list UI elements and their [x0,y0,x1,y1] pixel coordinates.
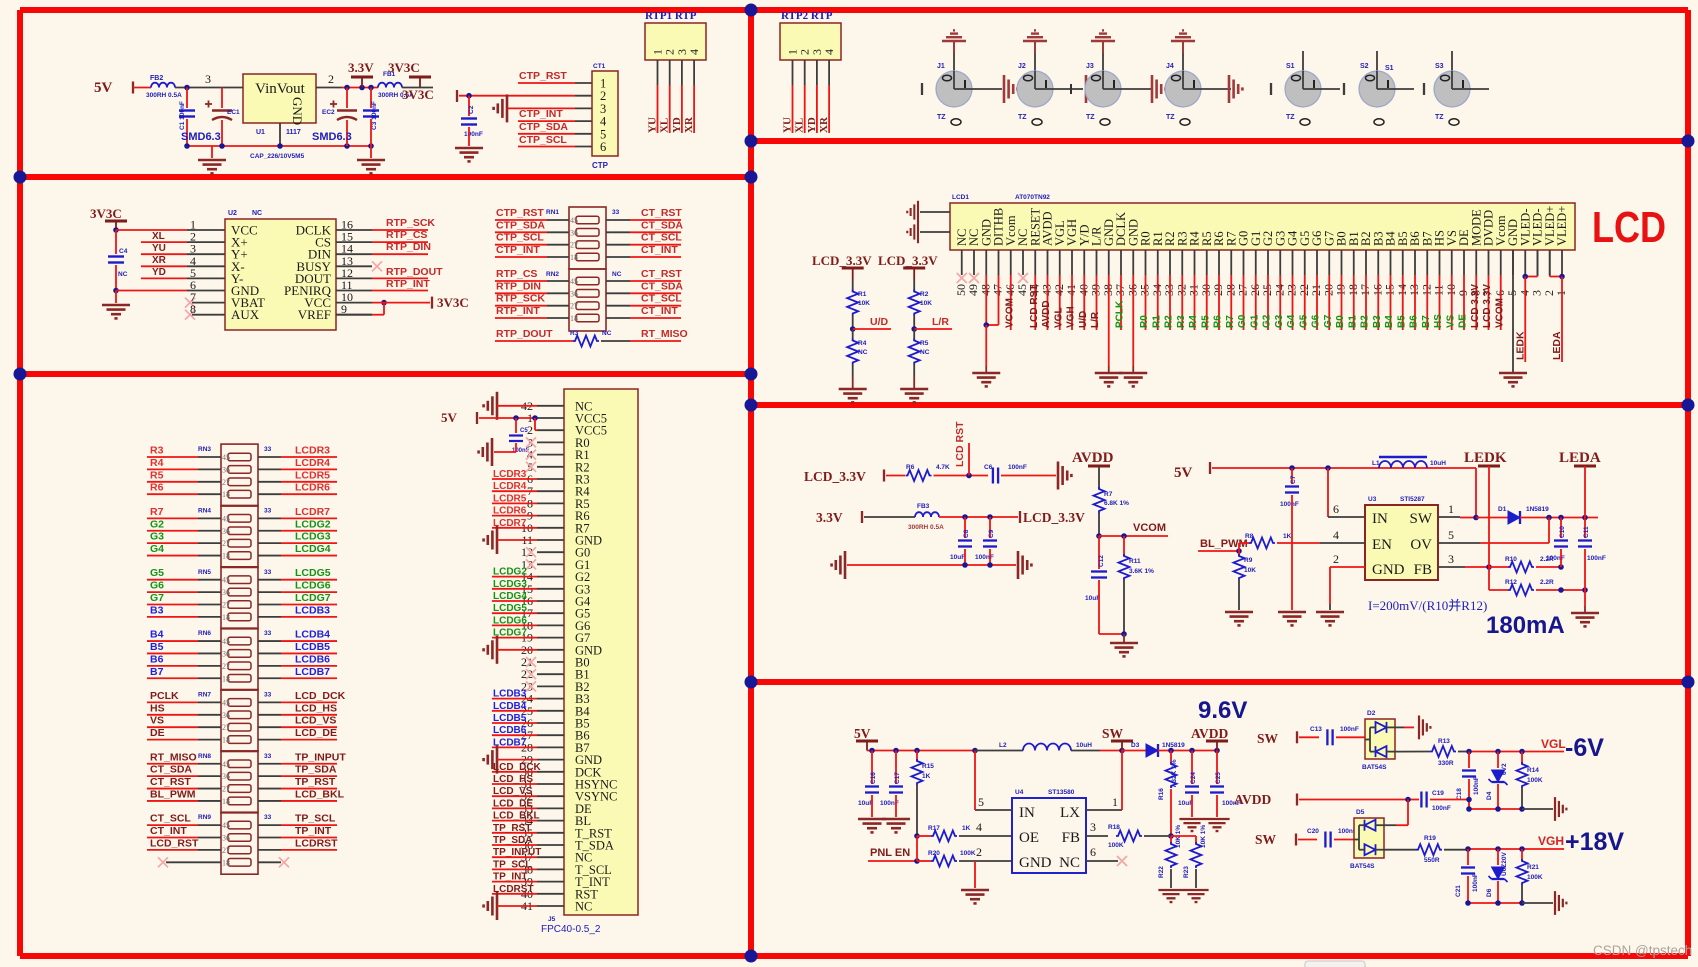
ground [479,438,492,466]
svg-text:C2: C2 [468,105,475,114]
svg-text:LX: LX [1060,805,1080,821]
svg-text:1: 1 [1112,795,1118,809]
svg-text:20: 20 [1321,284,1335,296]
svg-text:LCDR6: LCDR6 [295,482,330,494]
capacitor C1 [186,88,188,109]
svg-text:50: 50 [954,284,968,296]
svg-text:LCD_BKL: LCD_BKL [493,811,540,822]
resistor R23 [1171,835,1196,837]
svg-text:AVDD: AVDD [1041,300,1052,328]
pin 1 LX wire [1086,809,1122,811]
svg-text:G6: G6 [150,580,164,592]
svg-text:CTP: CTP [592,161,609,170]
svg-text:5V: 5V [94,80,113,96]
svg-text:36: 36 [222,527,230,536]
svg-text:LCDR7: LCDR7 [295,506,330,518]
svg-text:D3: D3 [1131,742,1140,749]
capacitor C21 [1467,849,1469,865]
svg-text:XR: XR [152,255,167,266]
jumper J1 [936,71,972,107]
electrolytic capacitor EC1 [221,88,223,109]
resistor R8 [1236,548,1242,554]
net label LCD_DE [492,807,537,809]
svg-text:R19: R19 [1424,835,1436,842]
net label LCDRST [258,849,281,851]
svg-text:100nF: 100nF [1280,501,1299,508]
svg-text:GND: GND [1372,562,1405,578]
svg-text:33: 33 [264,753,272,760]
svg-text:10uF: 10uF [858,800,873,807]
svg-text:CT_INT: CT_INT [150,825,187,837]
svg-text:18: 18 [222,613,230,622]
side ground right of J1 [1004,75,1017,103]
svg-text:S2: S2 [1360,63,1369,70]
svg-text:33: 33 [264,814,272,821]
svg-text:LCD_HS: LCD_HS [493,774,533,785]
svg-text:3V3C: 3V3C [402,87,434,102]
resistor R13 [1395,751,1430,753]
svg-text:YD: YD [671,117,683,133]
resistor R12 [1508,585,1534,596]
svg-text:SW: SW [1257,731,1279,746]
svg-text:CSDN @tpstech: CSDN @tpstech [1593,943,1692,958]
svg-text:6: 6 [1493,290,1507,296]
svg-text:2.2R: 2.2R [1540,579,1554,586]
svg-text:10uF: 10uF [950,554,965,561]
svg-text:LCDG7: LCDG7 [295,592,331,604]
svg-text:2: 2 [1333,552,1339,566]
GND pins 48 47 to ground [985,275,987,325]
ground [1204,819,1229,831]
net label LCDB7 [492,746,537,748]
svg-text:IN: IN [1372,511,1388,527]
ground [1555,797,1566,821]
wire to pin6 [116,290,187,292]
svg-text:U2: U2 [228,210,237,217]
ground [370,146,372,158]
svg-text:NC: NC [118,271,128,278]
svg-text:LCD1: LCD1 [952,194,969,201]
pin 5 OV wire [1438,542,1480,544]
resistor R22 [1170,836,1172,843]
svg-text:YU: YU [782,117,794,133]
svg-text:33: 33 [264,446,272,453]
svg-text:EC1: EC1 [227,109,240,116]
net label LCD_VS [492,795,537,797]
svg-text:5: 5 [1448,528,1454,542]
svg-text:12: 12 [1419,284,1433,296]
svg-text:B3: B3 [150,604,164,616]
svg-text:BL_PWM: BL_PWM [1200,538,1248,550]
svg-text:RTP_DIN: RTP_DIN [496,280,541,292]
pin 10 to 3V3C [381,300,387,306]
no-connect pin 45 [1018,273,1028,283]
ferrite bead FB3 [915,512,939,517]
svg-text:LCD_DCK: LCD_DCK [493,762,542,773]
svg-text:LCD_3.3V: LCD_3.3V [812,253,872,268]
svg-text:IN: IN [1019,805,1035,821]
LCD1 left side pins to grounds [920,211,950,213]
svg-text:STI5287: STI5287 [1400,496,1425,503]
net label LCD RST pin 44 [1034,275,1036,330]
svg-text:R10: R10 [1505,556,1517,563]
port [1209,462,1211,474]
svg-text:10uF: 10uF [1178,800,1193,807]
svg-text:VGL: VGL [1053,307,1064,328]
svg-text:10K: 10K [920,300,932,307]
svg-text:AVDD: AVDD [1234,792,1272,807]
svg-text:22: 22 [1297,284,1311,296]
net label G1 pin 26 [1255,275,1257,330]
svg-text:G2: G2 [150,518,164,530]
port [1270,83,1272,95]
svg-text:45: 45 [570,216,578,225]
svg-text:R17: R17 [928,825,940,832]
resistor R21 [1521,849,1523,861]
net label LCD 3.3V pin 8 [1475,275,1477,330]
svg-text:R2: R2 [1164,315,1175,328]
svg-text:36: 36 [222,588,230,597]
no-connect pin 4 [526,450,536,460]
svg-text:LCDG3: LCDG3 [295,531,331,543]
resistor R16 [1170,751,1172,764]
svg-text:TZ: TZ [1086,114,1095,121]
svg-text:36: 36 [222,834,230,843]
svg-text:R5: R5 [920,340,929,347]
svg-text:U4: U4 [1015,789,1024,796]
no-connect pin 13 [526,559,536,569]
svg-text:LCDR5: LCDR5 [493,493,527,504]
svg-text:45: 45 [222,760,230,769]
svg-text:100K: 100K [1527,777,1543,784]
svg-text:TZ: TZ [1435,114,1444,121]
svg-text:100nF: 100nF [1473,776,1480,795]
svg-text:LCDG3: LCDG3 [493,579,527,590]
net label VGL pin 42 [1059,275,1061,330]
resistor network RN3 [221,444,258,506]
svg-text:6V2: 6V2 [1501,763,1508,775]
GND pin 38 to ground [1108,275,1110,366]
net label LCDB3 [258,616,281,618]
svg-text:4: 4 [687,49,701,55]
ground rail with side grounds [847,564,1016,566]
svg-text:L/R: L/R [1090,311,1101,328]
net label LCDR4 [492,490,537,492]
net label R2 pin 33 [1169,275,1171,330]
svg-text:CT_RST: CT_RST [641,268,682,280]
svg-text:37: 37 [1113,284,1127,296]
svg-text:7.32K 1%: 7.32K 1% [1171,759,1178,788]
svg-text:RN6: RN6 [198,630,211,637]
net label B3 pin 16 [1377,275,1379,330]
svg-text:RTP_SCK: RTP_SCK [496,293,545,305]
svg-text:17: 17 [1358,284,1372,296]
svg-text:1K: 1K [1283,533,1292,540]
svg-text:LCDB4: LCDB4 [493,701,527,712]
svg-text:LCDG2: LCDG2 [295,518,331,530]
svg-text:R7: R7 [150,506,164,518]
svg-text:VinVout: VinVout [255,81,305,97]
svg-text:45: 45 [222,453,230,462]
sheet border frame [20,7,1688,13]
svg-text:100nF: 100nF [1008,464,1027,471]
ui scrollbar fragment [1305,961,1365,967]
svg-text:15: 15 [1383,284,1397,296]
svg-text:C1 100nF: C1 100nF [179,101,186,130]
svg-text:RN9: RN9 [198,814,211,821]
svg-text:CTP_SCL: CTP_SCL [496,232,544,244]
antenna ground above J3 [1091,30,1115,41]
svg-text:LCD 3.3V: LCD 3.3V [1470,284,1481,328]
port 5V [132,82,134,94]
no-connect pin 49 [969,273,979,283]
VGL bottom rail [1469,808,1522,810]
svg-text:U/D: U/D [870,316,889,328]
svg-text:G1: G1 [1249,314,1260,328]
resistor network RN2 [569,269,606,331]
svg-text:L/R: L/R [932,316,949,328]
svg-text:SMD6.3: SMD6.3 [312,131,352,143]
svg-text:36: 36 [1125,284,1139,296]
svg-text:33: 33 [264,630,272,637]
svg-text:R21: R21 [1527,864,1539,871]
svg-text:LCDR3: LCDR3 [493,469,527,480]
net label VGH pin 41 [1071,275,1073,330]
svg-text:R6: R6 [906,464,915,471]
ferrite bead FB1 [378,83,402,88]
diode pair D2 BAT54S [1365,719,1395,759]
net label HS pin 11 [1439,275,1441,330]
svg-text:TP_INPUT: TP_INPUT [295,751,346,763]
no-connect pin 13 [372,261,382,271]
svg-text:39: 39 [1089,284,1103,296]
net label B1 pin 18 [1353,275,1355,330]
svg-text:LCDB5: LCDB5 [493,713,527,724]
net label G7 pin 20 [1328,275,1330,330]
jumper J4 [1165,71,1201,107]
port [883,470,885,482]
svg-text:28: 28 [1223,284,1237,296]
svg-text:24: 24 [1272,284,1286,296]
capacitor C2 [468,96,470,116]
svg-text:J3: J3 [1086,63,1094,70]
net label LCDB6 [492,734,537,736]
svg-text:R5: R5 [1200,315,1211,328]
net label CT_SDA [606,292,630,294]
svg-text:R1: R1 [858,291,867,298]
svg-text:CT_SDA: CT_SDA [641,280,683,292]
svg-text:G5: G5 [1298,314,1309,328]
svg-text:4: 4 [1517,290,1531,296]
pin 6 NC wire [1086,860,1118,862]
svg-text:18: 18 [222,552,230,561]
svg-text:1N5819: 1N5819 [1162,742,1185,749]
svg-text:B5: B5 [150,641,164,653]
svg-text:C10: C10 [1559,526,1566,538]
net label TP_INT [492,881,537,883]
wire [175,87,243,89]
capacitor C10 [1560,518,1562,539]
LCD1 pin stubs and numbers [1561,250,1563,275]
svg-text:HS: HS [1433,314,1444,328]
capacitor C24 [1191,751,1193,785]
net label LCD_DCK [258,701,281,703]
svg-text:RTP2 RTP: RTP2 RTP [781,10,833,22]
wire mark [1070,84,1072,94]
ground [852,377,854,388]
svg-text:CTP_INT: CTP_INT [496,244,540,256]
resistor R4 [852,329,854,341]
5V rail [867,750,975,752]
svg-text:PCLK: PCLK [150,690,179,702]
net label LCD_DE [258,739,281,741]
svg-text:C16: C16 [870,772,877,784]
inductor L2 10uH [975,750,1023,752]
svg-text:33: 33 [612,209,620,216]
ground [1278,612,1306,625]
svg-text:R9: R9 [1244,557,1253,564]
port wire to CT1 pin2 [456,90,458,102]
svg-text:DE: DE [150,727,165,739]
svg-text:31: 31 [1187,284,1201,296]
svg-text:R14: R14 [1527,767,1539,774]
svg-text:45: 45 [222,637,230,646]
svg-text:NC: NC [575,900,592,914]
net label VCOM [1096,533,1102,539]
ground pin42 [484,392,497,420]
svg-text:RTP_CS: RTP_CS [496,268,537,280]
svg-text:R3: R3 [1176,315,1187,328]
svg-text:100nF: 100nF [1432,805,1451,812]
svg-text:SMD6.3: SMD6.3 [181,131,221,143]
port [1295,834,1297,846]
svg-text:R4: R4 [150,457,164,469]
svg-text:LCDR6: LCDR6 [493,506,527,517]
svg-text:LCDB7: LCDB7 [295,666,330,678]
net label LCDR3 [258,456,281,458]
net label LCD_RST [968,443,970,476]
svg-text:11: 11 [1432,284,1446,296]
svg-text:R7: R7 [1225,315,1236,328]
net label LCDG2 [258,530,281,532]
net label L/R [911,326,917,332]
svg-text:5V: 5V [854,726,871,741]
antenna ground above J2 [1023,30,1047,41]
svg-text:LCD_3.3V: LCD_3.3V [804,469,866,484]
svg-text:TZ: TZ [937,114,946,121]
net label LCD_BKL [258,800,281,802]
svg-text:I=200mV/(R10并R12): I=200mV/(R10并R12) [1368,598,1487,613]
wire to pin1 [116,229,187,231]
electrolytic capacitor EC2 [346,88,348,109]
svg-text:4: 4 [822,49,836,55]
svg-text:48: 48 [978,284,992,296]
svg-text:CAP_226/10V5M5: CAP_226/10V5M5 [250,153,305,160]
net label CT_SCL [606,244,630,246]
net label VCOM pin 46 [1010,275,1012,330]
svg-text:R5: R5 [150,469,164,481]
ground [1058,462,1071,490]
ground [455,148,483,161]
svg-text:LCDG5: LCDG5 [295,567,331,579]
svg-text:27: 27 [222,539,230,548]
svg-text:10K: 10K [858,300,870,307]
side ground right of J2 [1086,75,1099,103]
svg-text:5: 5 [978,795,984,809]
net label LCDB4 [492,710,537,712]
svg-text:LCD_VS: LCD_VS [295,715,336,727]
net label PCLK pin 37 [1120,275,1122,330]
svg-text:3: 3 [1530,290,1544,296]
resistor network RN8 [221,751,258,813]
net label LCDR4 [258,468,281,470]
svg-text:TZ: TZ [1018,114,1027,121]
svg-text:R8: R8 [1245,533,1254,540]
svg-text:LEDA: LEDA [1559,450,1601,466]
svg-text:36: 36 [222,711,230,720]
svg-text:FPC40-0.5_2: FPC40-0.5_2 [541,924,601,935]
svg-text:S3: S3 [1435,63,1444,70]
svg-text:LCDB4: LCDB4 [295,629,330,641]
svg-text:RTP_SCK: RTP_SCK [386,217,435,229]
capacitor C3 [370,88,372,109]
resistor R7 [1094,487,1105,513]
svg-text:40: 40 [1076,284,1090,296]
svg-text:NC: NC [858,349,868,356]
svg-text:6: 6 [600,140,606,154]
svg-text:C3 100nF: C3 100nF [371,101,378,130]
connector J5 FPC40 [564,389,638,915]
svg-text:XL: XL [794,118,806,133]
regulator U1 [243,74,316,123]
svg-text:U0Z20V: U0Z20V [1501,851,1508,876]
svg-text:27: 27 [222,785,230,794]
svg-text:LCD_BKL: LCD_BKL [295,788,345,800]
svg-text:CTP_SDA: CTP_SDA [519,121,568,133]
svg-text:CT_INT: CT_INT [641,305,678,317]
port [1296,794,1298,806]
svg-text:YD: YD [152,267,166,278]
net label AVDD pin 43 [1047,275,1049,330]
svg-text:1: 1 [1554,290,1568,296]
net label TP_SCL [258,824,281,826]
svg-text:R1: R1 [1151,315,1162,328]
svg-text:D4: D4 [1486,791,1493,800]
svg-text:G4: G4 [1286,314,1297,328]
svg-text:VS: VS [1445,314,1456,328]
no-connect pin 12 [526,547,536,557]
svg-text:RN5: RN5 [198,569,211,576]
svg-text:ST13580: ST13580 [1048,789,1075,796]
svg-text:LCD RST: LCD RST [954,421,966,467]
net label B2 pin 17 [1365,275,1367,330]
svg-text:BAT54S: BAT54S [1350,863,1375,870]
svg-text:RN2: RN2 [546,271,559,278]
svg-text:U1: U1 [256,129,265,136]
svg-text:G3: G3 [150,531,164,543]
pin 9 wire [336,314,372,316]
svg-text:27: 27 [1236,284,1250,296]
net label LCDB3 [492,698,537,700]
resistor R20 [917,860,931,862]
right pin wires and numbers 16-9 [336,229,372,231]
svg-text:RT_MISO: RT_MISO [641,328,688,340]
no-connect row [166,861,221,863]
ground [1183,890,1208,902]
svg-text:5: 5 [1505,290,1519,296]
svg-text:B6: B6 [150,653,164,665]
svg-text:100nF: 100nF [1546,555,1565,562]
